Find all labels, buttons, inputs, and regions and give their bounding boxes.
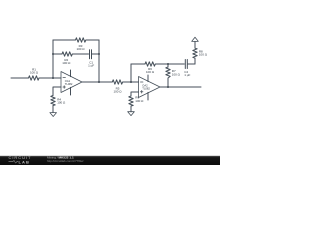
svg-text:100 Ω: 100 Ω [199,53,208,57]
svg-text:100 Ω: 100 Ω [57,100,66,104]
svg-text:100 Ω: 100 Ω [30,71,39,75]
svg-text:100 Ω: 100 Ω [62,61,71,65]
svg-text:TL082: TL082 [142,86,150,90]
svg-text:100 Ω: 100 Ω [172,73,181,77]
svg-text:http://circuitlab.com/c/77f9uz: http://circuitlab.com/c/77f9uz [47,159,84,163]
svg-text:TL082: TL082 [65,82,73,86]
svg-text:100 Ω: 100 Ω [146,70,155,74]
svg-text:1 µF: 1 µF [88,64,94,68]
svg-text:LAB: LAB [19,159,31,164]
svg-text:1 µF: 1 µF [184,73,190,77]
svg-text:100 Ω: 100 Ω [113,89,122,93]
svg-text:100 Ω: 100 Ω [76,47,85,51]
svg-text:100 Ω: 100 Ω [135,99,144,103]
